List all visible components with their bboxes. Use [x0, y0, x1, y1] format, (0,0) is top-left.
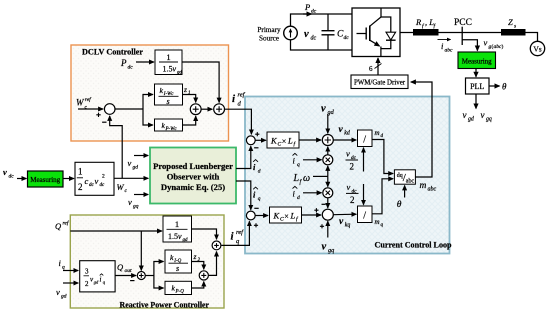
- block: 1/2 Cdc Vdc^2 energy: [75, 162, 114, 195]
- summer S1 (Wc error): [104, 104, 115, 115]
- svg-text:Vs: Vs: [533, 45, 541, 54]
- wire: theta into dq/abc: [404, 186, 406, 198]
- svg-text:θ: θ: [397, 200, 402, 210]
- svg-text:Z: Z: [508, 17, 513, 27]
- svg-text:v: v: [484, 38, 488, 48]
- svg-text:DCLV Controller: DCLV Controller: [82, 48, 143, 57]
- svg-text:gd: gd: [328, 109, 335, 116]
- svg-text:gd: gd: [94, 279, 99, 284]
- svg-text:P: P: [120, 58, 127, 68]
- svg-text:v: v: [128, 197, 132, 207]
- svg-text:gd: gd: [61, 294, 67, 300]
- svg-text:c: c: [125, 188, 128, 194]
- svg-text:ω: ω: [303, 173, 310, 184]
- svg-text:dc: dc: [128, 65, 134, 71]
- Reactive Power Controller outer box: [70, 215, 224, 308]
- svg-text:dc: dc: [9, 174, 15, 180]
- block: kP-Wc gain: [155, 119, 183, 131]
- wire: vgd into observer: [134, 155, 148, 157]
- wire: m_abc to PWM driver: [411, 82, 432, 177]
- wire: vkd to divider: [333, 139, 356, 141]
- svg-text:6: 6: [369, 65, 373, 73]
- wire: source bottom lead: [291, 40, 354, 50]
- wire: feedforward to sum r3: [192, 229, 217, 239]
- block: 3/2 vgd iq power calc: [80, 261, 115, 292]
- svg-text:Measuring: Measuring: [462, 57, 492, 65]
- wire: Wc feedback to sum1: [110, 116, 123, 178]
- wire: Wc_ref into sum1: [78, 108, 103, 110]
- wire: Zs to Vs: [526, 33, 538, 42]
- wire: m2 down into sum c4: [327, 198, 329, 208]
- svg-text:θ: θ: [502, 82, 507, 92]
- svg-text:Dynamic Eq. (25): Dynamic Eq. (25): [161, 182, 225, 192]
- svg-text:): ): [502, 43, 504, 50]
- wire: Kc q out to sum c4: [302, 214, 322, 216]
- block: 1/(1.5vgd) DCLV feedforward: [155, 50, 182, 75]
- svg-text:v: v: [173, 65, 177, 74]
- block: Measuring (dc link): [28, 171, 64, 187]
- svg-text:/: /: [363, 135, 366, 146]
- wire: PLL theta output: [489, 85, 500, 87]
- svg-text:PLL: PLL: [470, 82, 484, 91]
- svg-text:×: ×: [284, 212, 289, 221]
- svg-text:R: R: [415, 17, 422, 27]
- svg-text:Q: Q: [55, 221, 61, 231]
- svg-text:v: v: [347, 182, 351, 192]
- svg-text:ref: ref: [236, 229, 244, 236]
- wire: Kc out to sum c2: [299, 139, 321, 141]
- wire: measuring to PLL: [475, 69, 477, 77]
- svg-text:out: out: [125, 268, 133, 274]
- svg-text:gq: gq: [328, 247, 334, 254]
- summer C3 (iq error): [246, 211, 255, 220]
- wire: feedforward to sum2: [182, 62, 219, 103]
- wire: md to dq/abc: [372, 140, 393, 174]
- svg-text:2: 2: [78, 182, 83, 192]
- svg-text:d: d: [297, 195, 300, 201]
- wire: vgq up into sum c4: [327, 221, 329, 237]
- svg-text:1.5: 1.5: [163, 65, 173, 74]
- svg-text:i: i: [231, 231, 235, 243]
- block: kI-Wc/s integrator: [155, 84, 183, 105]
- svg-text:q: q: [258, 196, 261, 202]
- svg-text:L: L: [290, 211, 296, 221]
- wire: vgq into observer: [134, 194, 148, 196]
- wire: filter to PCC to Zs: [439, 32, 502, 34]
- svg-text:P-Wc: P-Wc: [165, 127, 178, 132]
- svg-text:abc: abc: [406, 178, 415, 184]
- svg-text:P: P: [304, 2, 310, 12]
- svg-text:z: z: [183, 85, 187, 94]
- wire: iq_hat into multiplier m1: [303, 159, 322, 161]
- svg-text:i: i: [100, 276, 102, 284]
- svg-text:P-Q: P-Q: [175, 290, 185, 295]
- svg-text:1: 1: [175, 219, 179, 229]
- summer C1 (id error): [246, 136, 255, 145]
- block: Proposed Luenberger Observer: [150, 148, 236, 204]
- summer S3 (PI sum): [190, 104, 201, 115]
- wire: sum3 to sum2: [201, 108, 212, 110]
- svg-text:Source: Source: [259, 35, 279, 43]
- svg-text:gd: gd: [133, 165, 139, 171]
- wire: observer id_hat to sum c1: [236, 146, 251, 168]
- svg-text:2: 2: [102, 174, 105, 180]
- svg-text:s: s: [514, 24, 516, 30]
- wire: Pdc to block: [136, 61, 154, 63]
- svg-text:gq: gq: [133, 204, 139, 210]
- DCLV Controller outer box: [71, 45, 229, 141]
- block: Kc x Lf (q axis): [270, 207, 302, 223]
- svg-text:v: v: [128, 158, 132, 168]
- block: kP-Q gain: [165, 281, 192, 294]
- source Vs: [530, 41, 544, 55]
- wire: gate signals to inverter (6): [377, 58, 379, 75]
- summer R2 (PI sum): [199, 271, 208, 280]
- current source I1 (primary source): [284, 26, 298, 40]
- svg-text:2: 2: [350, 162, 355, 172]
- wire: vgd down into sum c2: [327, 114, 329, 133]
- node: minus at sum r1: [130, 280, 134, 282]
- block: divider q: [358, 206, 373, 223]
- wire: Qref to feedforward block: [70, 230, 162, 232]
- wire: kP-Q out to sum r2: [192, 282, 204, 288]
- svg-text:v: v: [321, 104, 326, 115]
- svg-text:abc: abc: [428, 186, 437, 192]
- capacitor Cdc: [327, 14, 329, 31]
- summer C2 (vkd): [322, 135, 333, 146]
- svg-text:c: c: [85, 176, 89, 186]
- svg-text:m: m: [420, 181, 427, 191]
- wire: inverter ac output: [400, 32, 414, 34]
- wire: m1 up into sum c2: [327, 147, 329, 155]
- svg-text:2: 2: [350, 195, 355, 205]
- wire: iq into Q calc: [63, 270, 78, 272]
- svg-text:m: m: [375, 129, 380, 137]
- wire: iq_ref to current loop: [222, 221, 250, 245]
- svg-text:q: q: [236, 238, 240, 245]
- svg-text:v: v: [304, 29, 309, 40]
- wire: mq to dq/abc: [372, 179, 393, 214]
- svg-text:2: 2: [85, 280, 89, 288]
- svg-text:dc: dc: [344, 35, 350, 41]
- multiplier M2: [323, 188, 333, 198]
- svg-text:1: 1: [78, 167, 83, 177]
- svg-text:kd: kd: [344, 131, 350, 137]
- svg-text:f: f: [434, 23, 437, 30]
- svg-text:dc: dc: [100, 183, 106, 188]
- svg-text:Proposed Luenberger: Proposed Luenberger: [153, 161, 233, 171]
- node: i_abc label: [438, 39, 451, 41]
- wire: Wc to observer: [114, 177, 148, 179]
- svg-text:v: v: [95, 176, 99, 186]
- wire: source top lead: [291, 14, 354, 26]
- svg-text:d: d: [238, 101, 242, 108]
- svg-text:Measuring: Measuring: [30, 176, 60, 184]
- svg-text:m: m: [375, 218, 380, 226]
- svg-text:L: L: [293, 173, 300, 184]
- svg-text:v: v: [322, 242, 327, 253]
- svg-text:v: v: [56, 287, 60, 297]
- svg-text:PCC: PCC: [454, 18, 472, 28]
- inductor Rf,Lf: [413, 29, 439, 36]
- svg-text:PWM/Gate Driver: PWM/Gate Driver: [354, 79, 406, 86]
- wire: Qref branch down to sum r1: [140, 231, 142, 270]
- block: kI-Q/s integrator: [165, 250, 192, 273]
- wire: vgd into Q calc: [63, 282, 78, 284]
- svg-text:q: q: [297, 162, 300, 168]
- block: Measuring (grid): [458, 52, 496, 69]
- svg-text:v: v: [3, 167, 7, 177]
- svg-text:v: v: [481, 110, 485, 120]
- wire: Lfw tee to multipliers: [313, 175, 328, 177]
- wire: id_ref to current loop: [225, 109, 252, 134]
- svg-text:gd: gd: [183, 238, 189, 243]
- svg-text:z: z: [193, 252, 197, 261]
- wire: vdc/2 up into divider d: [363, 148, 365, 172]
- svg-text:gd: gd: [468, 117, 474, 123]
- wire: Qout to sum r1: [115, 275, 136, 277]
- diode D1: [381, 17, 391, 32]
- svg-text:Q: Q: [117, 262, 123, 272]
- svg-text:W: W: [117, 182, 125, 192]
- svg-text:q: q: [62, 265, 65, 271]
- wire: c1 to Kc block: [255, 139, 266, 141]
- block: PLL: [466, 78, 490, 94]
- svg-text:/: /: [363, 211, 366, 222]
- summer C4 (vkq): [322, 209, 333, 220]
- wire: dc bus arrow: [303, 13, 312, 15]
- transistor Q1 (IGBT): [380, 8, 382, 17]
- svg-text:1: 1: [166, 52, 170, 62]
- wire: observer iq_hat to sum c3: [236, 181, 251, 210]
- wire: error to PI branch: [115, 108, 143, 110]
- svg-text:L: L: [287, 136, 293, 146]
- svg-text:v: v: [346, 149, 350, 159]
- wire: id_hat into multiplier m2: [303, 192, 322, 194]
- svg-text:s: s: [167, 97, 170, 106]
- svg-text:dc: dc: [311, 9, 317, 15]
- svg-text:gd: gd: [177, 71, 182, 76]
- svg-text:gq: gq: [486, 117, 492, 123]
- block: PWM/Gate Driver: [351, 75, 408, 89]
- summer S2 (id_ref): [214, 104, 225, 115]
- svg-text:kq: kq: [345, 223, 351, 229]
- wire: r2 to r3: [209, 252, 217, 276]
- svg-text:1.5: 1.5: [168, 232, 178, 241]
- wire: kP out to sum3: [183, 116, 196, 125]
- wire: PCC branch down: [462, 40, 477, 51]
- svg-text:s: s: [176, 264, 179, 273]
- wire: kI-Q out to sum r2: [192, 262, 204, 270]
- svg-text:dc: dc: [311, 36, 317, 42]
- summer R3 (iq_ref): [212, 241, 221, 250]
- wire: vdc/2 down into divider q: [363, 184, 365, 205]
- svg-text:v: v: [463, 110, 467, 120]
- block: 1/(1.5vgd) RPC feedforward: [163, 216, 192, 242]
- svg-text:3: 3: [85, 268, 89, 276]
- svg-text:×: ×: [282, 137, 287, 146]
- svg-text:ref: ref: [238, 92, 246, 99]
- inductor Zs: [501, 29, 526, 36]
- svg-text:i: i: [232, 93, 236, 105]
- Current Control Loop outer box: [245, 97, 450, 254]
- svg-text:d: d: [258, 169, 261, 175]
- block: divider d: [358, 130, 373, 147]
- wire: vdc into measuring: [17, 178, 26, 180]
- svg-text:ref: ref: [63, 220, 70, 227]
- wire: vkq to divider q: [333, 213, 356, 216]
- multiplier M1: [323, 155, 333, 165]
- svg-text:Primary: Primary: [257, 26, 281, 34]
- wire: measuring to energy block: [63, 178, 74, 180]
- wire: Q error branch to PI: [145, 275, 154, 277]
- svg-text:1: 1: [188, 91, 191, 96]
- wire: c3 to Kc block q: [255, 215, 268, 217]
- summer R1 (Q error): [137, 272, 145, 280]
- svg-text:Current Control Loop: Current Control Loop: [375, 240, 453, 249]
- svg-text:Observer with: Observer with: [167, 172, 220, 182]
- wire: PLL vgd vgq output: [475, 94, 477, 109]
- block: Kc x Lf (d axis): [267, 132, 299, 148]
- svg-text:v: v: [178, 232, 182, 241]
- block: dq/abc transform: [394, 170, 415, 184]
- svg-text:abc: abc: [445, 48, 454, 54]
- svg-text:Reactive Power Controller: Reactive Power Controller: [120, 300, 210, 309]
- wire: integrator out to sum3: [183, 95, 196, 103]
- inverter U1 box: [352, 8, 400, 57]
